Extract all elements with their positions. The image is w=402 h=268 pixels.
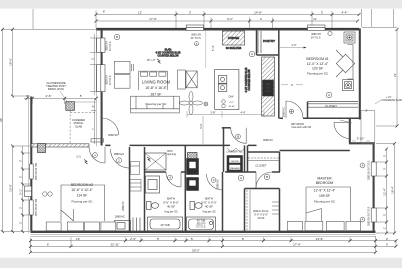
fridge: [223, 31, 245, 45]
hall closet walls: [248, 145, 280, 172]
svg-text:A: A: [240, 176, 242, 180]
svg-text:opening: opening: [167, 153, 177, 156]
svg-text:'nose arch with OD: 'nose arch with OD: [291, 126, 311, 129]
svg-text:10'-6": 10'-6": [8, 58, 12, 66]
corner post hatched: [38, 144, 46, 153]
svg-text:11': 11': [313, 17, 317, 21]
elec symbol living: [157, 59, 161, 64]
svg-text:3050 SH 24 T.O.S.: 3050 SH 24 T.O.S.: [368, 206, 371, 226]
sofa: [131, 96, 180, 113]
bath2 right wall: [222, 172, 224, 232]
left small ticks for window dims: [23, 152, 31, 154]
svg-text:2868 HC: 2868 HC: [282, 107, 286, 117]
svg-text:PANTRY: PANTRY: [263, 39, 275, 43]
svg-text:A: A: [362, 164, 364, 168]
svg-text:HB: HB: [266, 88, 270, 90]
bedroom1 bottom wall: [280, 117, 362, 119]
svg-text:2868 HC: 2868 HC: [217, 179, 220, 189]
svg-text:50'-2": 50'-2": [192, 249, 200, 253]
svg-text:2868 HC: 2868 HC: [115, 215, 125, 219]
fixture square top-right bedroom1: [344, 32, 355, 43]
svg-text:40 SF: 40 SF: [167, 205, 175, 209]
bedroom2 right wall: [129, 147, 131, 232]
svg-text:40 SF: 40 SF: [258, 216, 265, 220]
porch door from living: [102, 118, 119, 135]
bottom gray band: [0, 258, 402, 268]
bedroom1 closet back: [307, 102, 309, 119]
svg-text:5'-10": 5'-10": [213, 45, 215, 51]
porch dims: [26, 94, 82, 98]
svg-text:4'-4": 4'-4": [240, 110, 245, 114]
svg-text:'ring per SC: 'ring per SC: [202, 210, 216, 214]
brick veneer outer lines bottom: [29, 28, 376, 237]
WIC walls: [245, 189, 280, 232]
bath1 door: [166, 172, 181, 187]
svg-text:COUNTER BELOW: COUNTER BELOW: [157, 55, 179, 58]
svg-text:DRYER: DRYER: [231, 161, 239, 163]
bedroom2 wall closet boxes: [130, 162, 141, 192]
top gray band: [0, 0, 402, 9]
svg-text:'ring per SC: 'ring per SC: [164, 210, 178, 214]
fixture square bedroom1 right wall mid: [343, 80, 354, 91]
porch roof dashed outline: [69, 111, 71, 144]
windows right wall master: [371, 162, 376, 176]
ceiling fan living: [180, 92, 203, 115]
svg-text:27'-9": 27'-9": [293, 243, 301, 247]
svg-text:4'-0": 4'-0": [292, 44, 297, 47]
svg-text:FRIDGE: FRIDGE: [228, 36, 239, 40]
bath1 vanity bottom-left: [115, 221, 131, 232]
kitchen/bedroom1 wall: [278, 28, 280, 118]
pantry shelves: [257, 31, 259, 53]
right dim cols lower: [386, 149, 388, 233]
pillows row: [288, 221, 303, 230]
pantry wall: [257, 28, 279, 55]
svg-text:SLAB: SLAB: [75, 124, 82, 128]
window top wall living: [186, 25, 203, 30]
hatched post near bath: [188, 153, 198, 160]
living room label: [142, 80, 170, 107]
svg-text:Flooring per SC: Flooring per SC: [145, 102, 167, 106]
dining table: [139, 71, 168, 90]
svg-text:BEDROOM: BEDROOM: [316, 181, 334, 185]
svg-text:4'-2": 4'-2": [229, 102, 234, 104]
svg-text:A: A: [362, 218, 364, 222]
hall door to master side: [231, 128, 247, 144]
svg-text:40 SF: 40 SF: [229, 106, 235, 108]
svg-text:WALK-IN CL: WALK-IN CL: [253, 209, 269, 213]
bedroom2 elec symbol: [147, 157, 151, 162]
main hall wall: [105, 144, 256, 146]
svg-text:A: A: [196, 42, 198, 46]
front wall at porch: [31, 144, 89, 146]
svg-text:LAUNDRY CL: LAUNDRY CL: [227, 151, 243, 154]
svg-text:24' T.O.S.: 24' T.O.S.: [191, 37, 202, 40]
bed: [61, 185, 105, 221]
svg-text:70 T.O.S.: 70 T.O.S.: [196, 226, 206, 229]
wall between baths: [184, 145, 186, 231]
svg-text:12': 12': [138, 10, 142, 14]
svg-text:15' x 17': 15' x 17': [147, 59, 156, 62]
svg-text:15'-8" X 16'-8": 15'-8" X 16'-8": [145, 86, 167, 90]
left wall upper (living room): [101, 28, 103, 145]
svg-text:D/W: D/W: [229, 96, 234, 99]
dim labels: left col (rotated): [0, 58, 22, 224]
svg-text:WASHER: WASHER: [230, 167, 240, 170]
kitchen interior dims: [187, 111, 264, 144]
svg-text:110V: 110V: [76, 157, 82, 159]
svg-text:13'-9": 13'-9": [316, 237, 324, 241]
laundry closet block: [223, 128, 225, 172]
svg-text:40' TUB: 40' TUB: [160, 223, 170, 227]
svg-text:3068 SC: 3068 SC: [263, 138, 273, 142]
door number circles: [93, 153, 98, 158]
svg-text:24 T.O.S.: 24 T.O.S.: [109, 75, 112, 85]
svg-text:17'-6": 17'-6": [149, 17, 157, 21]
svg-text:B: B: [266, 175, 268, 179]
svg-text:A: A: [251, 52, 253, 56]
bar cabinets right: [178, 70, 186, 89]
svg-text:18'-4": 18'-4": [391, 186, 395, 194]
toilet bath2: [190, 202, 195, 210]
bath1 top wall: [145, 171, 186, 173]
svg-text:3'-8": 3'-8": [210, 110, 215, 114]
window top wall bedroom1: [308, 25, 326, 30]
svg-text:3068 SC: 3068 SC: [108, 133, 118, 137]
closet bedroom1: [308, 103, 359, 105]
svg-text:4'-6": 4'-6": [46, 94, 52, 98]
dim extension: left edge col lines: [2, 29, 4, 231]
dim row top2: [96, 20, 358, 22]
right wall bedroom1: [359, 28, 361, 119]
svg-text:22'-11": 22'-11": [110, 243, 119, 247]
svg-text:3050 SH 24 T.O.S.: 3050 SH 24 T.O.S.: [368, 160, 371, 180]
svg-text:3'-10": 3'-10": [357, 137, 365, 141]
svg-text:WOD: WOD: [265, 91, 271, 93]
master top-right wall: [349, 142, 375, 144]
svg-text:COUNTER BELOW: COUNTER BELOW: [248, 69, 251, 91]
svg-text:14'-8": 14'-8": [254, 10, 262, 14]
bottom extension lines: [30, 238, 32, 253]
svg-text:NTD: NTD: [266, 84, 271, 86]
svg-text:24 T.O.S.: 24 T.O.S.: [109, 41, 112, 51]
svg-text:5'-2": 5'-2": [199, 123, 203, 128]
front door: [89, 147, 105, 163]
dim row top1: [96, 14, 359, 16]
master entry door: [256, 172, 272, 188]
WIC: [247, 190, 279, 230]
top wall: [96, 28, 359, 30]
svg-text:2868 HC: 2868 HC: [114, 152, 124, 156]
svg-text:11'-0" X 12'-4": 11'-0" X 12'-4": [307, 62, 329, 66]
svg-text:CONCRETE SLAB: CONCRETE SLAB: [382, 99, 402, 102]
vanity sinks stacked on wall between baths: [187, 159, 199, 175]
island: [215, 70, 239, 110]
bed master: [306, 187, 351, 221]
svg-text:13'-6": 13'-6": [8, 184, 12, 192]
stove: [263, 80, 274, 96]
dim labels: right col (rotated): [383, 73, 398, 230]
svg-text:BRICK (3X/4): BRICK (3X/4): [48, 87, 64, 91]
svg-text:3'-2": 3'-2": [227, 17, 233, 21]
svg-text:13': 13': [76, 237, 80, 241]
bath1 left wall: [144, 147, 146, 232]
laundry bifold: [227, 148, 245, 152]
bedroom2 door: [111, 149, 130, 168]
svg-text:Flooring per SC: Flooring per SC: [71, 200, 93, 204]
right dim col upper: [396, 30, 398, 127]
svg-text:12'-4": 12'-4": [383, 188, 387, 196]
svg-text:24 T.O.S.: 24 T.O.S.: [311, 36, 322, 39]
tub bath1: [148, 217, 183, 231]
hall closet: [248, 158, 279, 161]
svg-text:B: B: [237, 135, 239, 139]
svg-text:CLOSET: CLOSET: [325, 104, 337, 108]
svg-text:CLOSET: CLOSET: [255, 164, 266, 168]
diagonal chaise right wall: [336, 54, 354, 72]
right wall master: [373, 143, 375, 232]
svg-text:114 SF: 114 SF: [77, 194, 88, 198]
porch post hatched: [66, 102, 75, 111]
svg-text:199 SF: 199 SF: [319, 194, 330, 198]
dim extension: top horizontal ref line: [3, 28, 97, 30]
svg-text:LIVING ROOM: LIVING ROOM: [142, 80, 170, 85]
armchairs left wall: [114, 61, 130, 73]
svg-text:21': 21': [393, 73, 397, 77]
svg-text:3050 SH 24 TOS: 3050 SH 24 TOS: [36, 198, 38, 216]
top extension lines: [32, 9, 34, 29]
windows left wall living: [97, 38, 105, 52]
tub bath2: [187, 217, 216, 231]
linen shelves: [132, 218, 134, 232]
bath2 door: [207, 174, 223, 190]
circled letters: [114, 31, 332, 97]
svg-text:120 SF: 120 SF: [312, 66, 323, 70]
svg-text:40 SF: 40 SF: [205, 205, 213, 209]
svg-text:30': 30': [0, 118, 3, 122]
dim labels: top rows: [103, 10, 348, 21]
svg-text:10'-6" X 12'-4": 10'-6" X 12'-4": [71, 188, 93, 192]
svg-text:16 SHELVES: 16 SHELVES: [226, 46, 242, 50]
svg-text:5'-0" X 5'-9": 5'-0" X 5'-9": [254, 213, 268, 217]
svg-text:A: A: [328, 93, 330, 97]
porch front wall brick hatch: [31, 144, 89, 147]
left wall lower (porch slab edge + bedroom2): [30, 97, 32, 232]
bottom dim rows: [31, 240, 397, 242]
svg-text:2'-3": 2'-3": [130, 237, 136, 241]
svg-text:Flooring per SC: Flooring per SC: [307, 71, 329, 75]
svg-text:12'-9" X 12'-4": 12'-9" X 12'-4": [314, 188, 336, 192]
svg-text:B: B: [116, 35, 118, 39]
bedroom1 door: [286, 101, 303, 118]
pillows: [46, 222, 61, 231]
svg-text:BEDROOM #1: BEDROOM #1: [306, 57, 328, 61]
svg-text:4'-4": 4'-4": [342, 10, 348, 14]
bottom wall: [31, 231, 376, 233]
porch dim row: [24, 97, 96, 99]
dim labels: bottom rows: [47, 237, 389, 253]
svg-text:Flooring per SC: Flooring per SC: [314, 199, 336, 203]
toilet bath1: [147, 202, 152, 210]
svg-text:2868 HC: 2868 HC: [122, 201, 125, 211]
patio back door: [334, 123, 350, 139]
svg-text:MASTER: MASTER: [317, 176, 332, 180]
top wall outer edge line: [96, 27, 359, 29]
master top wall left part: [280, 150, 350, 152]
svg-text:3'-1": 3'-1": [18, 189, 22, 195]
jog wall below bedroom1: [349, 118, 351, 143]
windows left wall bedroom2 bay: [25, 186, 32, 197]
svg-text:267 SF: 267 SF: [151, 93, 162, 97]
kitchen counter strip: [262, 57, 275, 116]
svg-text:3050 SH 24 TOS: 3050 SH 24 TOS: [36, 162, 38, 180]
